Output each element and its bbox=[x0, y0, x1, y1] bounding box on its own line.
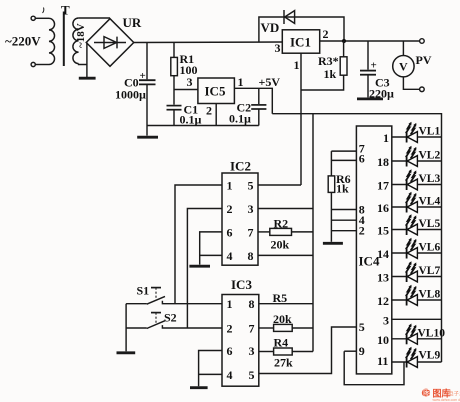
capacitor C3 bbox=[367, 41, 369, 70]
LED rows bbox=[392, 137, 442, 362]
ground (IC3) bbox=[190, 386, 208, 389]
svg-text:4: 4 bbox=[227, 249, 233, 263]
resistor R1 bbox=[173, 42, 175, 57]
svg-text:~220V: ~220V bbox=[5, 34, 41, 49]
svg-text:6: 6 bbox=[227, 344, 233, 358]
watermark logo bbox=[422, 388, 460, 402]
svg-text:VL1: VL1 bbox=[419, 126, 441, 138]
svg-text:27k: 27k bbox=[274, 356, 293, 370]
svg-text:20k: 20k bbox=[271, 238, 290, 252]
wire IC1 pin2 output rail bbox=[320, 40, 420, 42]
svg-text:7: 7 bbox=[249, 322, 255, 336]
svg-text:PV: PV bbox=[416, 53, 432, 67]
svg-text:3: 3 bbox=[187, 75, 193, 89]
IC3 box bbox=[222, 295, 259, 387]
svg-text:VL6: VL6 bbox=[419, 242, 441, 254]
svg-text:图: 图 bbox=[423, 389, 431, 398]
IC1 box bbox=[282, 30, 319, 53]
svg-text:IC3: IC3 bbox=[231, 277, 252, 292]
svg-text:3: 3 bbox=[275, 41, 281, 55]
svg-text:VL7: VL7 bbox=[419, 265, 441, 277]
ground (switches) bbox=[117, 351, 136, 354]
svg-text:电子发烧网: 电子发烧网 bbox=[448, 390, 460, 398]
wire secondary bottom bbox=[79, 63, 87, 66]
svg-text:2: 2 bbox=[323, 27, 329, 41]
svg-text:1000µ: 1000µ bbox=[115, 88, 146, 102]
output terminal top bbox=[420, 39, 425, 44]
+5V rail to LED bus bbox=[272, 114, 441, 362]
svg-text:2: 2 bbox=[227, 202, 233, 216]
wire IC4 pin8 bbox=[331, 209, 356, 211]
wire switches to ground bbox=[125, 304, 127, 352]
ground (C0) bbox=[137, 136, 158, 139]
transformer primary winding bbox=[49, 18, 55, 64]
transformer core bbox=[63, 12, 65, 67]
svg-text:www.dzfsw.com dianzifashaowang: www.dzfsw.com dianzifashaowang bbox=[433, 398, 460, 402]
svg-text:6: 6 bbox=[227, 225, 233, 239]
svg-text:4: 4 bbox=[227, 368, 233, 382]
wire R1/C1 to IC5 pin3 bbox=[174, 89, 198, 91]
wire terminal top to primary bbox=[35, 17, 49, 19]
capacitor C0 bbox=[146, 42, 148, 79]
svg-text:VL5: VL5 bbox=[419, 218, 441, 230]
wire terminal bottom to primary bbox=[35, 64, 49, 66]
svg-text:13: 13 bbox=[377, 271, 389, 285]
wire bridge left corner to ground bbox=[86, 43, 88, 78]
capacitor C2 bbox=[258, 88, 260, 104]
wire IC3 pin5 to IC4 pin5 bbox=[259, 327, 357, 374]
svg-text:8: 8 bbox=[248, 249, 254, 263]
LED VL10 bbox=[392, 338, 442, 340]
IC5 pin2 stem bbox=[215, 104, 217, 126]
wire secondary top to bridge top bbox=[79, 17, 110, 19]
wire C0 to ground bbox=[146, 126, 148, 136]
svg-text:10: 10 bbox=[377, 333, 389, 347]
svg-text:2: 2 bbox=[359, 224, 365, 238]
svg-text:VL2: VL2 bbox=[419, 150, 441, 162]
R6 pullup network verticals bbox=[331, 151, 356, 176]
svg-text:1: 1 bbox=[227, 179, 233, 193]
ground (R6) bbox=[323, 242, 343, 245]
svg-text:7: 7 bbox=[248, 225, 254, 239]
LED VL3 bbox=[392, 184, 442, 186]
svg-text:6: 6 bbox=[359, 152, 365, 166]
resistor R6 bbox=[328, 176, 335, 193]
wire IC2 pin6 pin4 to ground bbox=[200, 232, 222, 265]
LED VL9 bbox=[392, 361, 442, 363]
wire IC3 pin6 pin4 to ground bbox=[199, 351, 222, 387]
svg-text:11: 11 bbox=[377, 354, 388, 368]
LED VL5 bbox=[392, 229, 442, 231]
LED VL8 bbox=[392, 299, 442, 301]
switch S1 bbox=[126, 303, 147, 305]
vertical +5V pullup bus bbox=[312, 114, 314, 352]
svg-text:S2: S2 bbox=[164, 311, 177, 325]
wire IC4 pin9 bbox=[344, 350, 356, 352]
IC4 box bbox=[356, 126, 391, 374]
IC2 box bbox=[222, 173, 258, 265]
switch S2 bbox=[126, 327, 147, 329]
svg-text:2: 2 bbox=[206, 104, 212, 118]
resistor R5 (20k) in pin7 row bbox=[259, 327, 274, 329]
wire IC2 pin5 bbox=[258, 184, 301, 186]
output terminal bottom bbox=[420, 87, 425, 92]
svg-text:1: 1 bbox=[227, 297, 233, 311]
wire IC2 pin3 bbox=[258, 208, 313, 210]
wire IC4 pin3 row bbox=[392, 318, 442, 320]
svg-text:T: T bbox=[61, 3, 70, 18]
svg-text:VL8: VL8 bbox=[419, 289, 441, 301]
svg-text:IC2: IC2 bbox=[230, 159, 251, 174]
ground (C3) bbox=[357, 98, 383, 101]
svg-text:VL10: VL10 bbox=[418, 327, 446, 339]
svg-text:V: V bbox=[399, 60, 408, 74]
svg-text:3: 3 bbox=[383, 313, 389, 327]
wire main rail bridge to IC1 bbox=[134, 41, 283, 44]
svg-text:+: + bbox=[140, 70, 146, 82]
svg-text:220µ: 220µ bbox=[369, 87, 394, 101]
LED VL1 bbox=[392, 136, 442, 138]
svg-text:+5V: +5V bbox=[259, 75, 281, 89]
diode VD bbox=[284, 10, 295, 24]
svg-text:+: + bbox=[371, 60, 377, 72]
svg-text:R4: R4 bbox=[274, 336, 289, 350]
wire IC4 pin9 to pin11 net bbox=[344, 351, 404, 385]
svg-text:18: 18 bbox=[377, 155, 389, 169]
svg-text:2: 2 bbox=[227, 322, 233, 336]
ground (bridge) bbox=[79, 77, 96, 80]
svg-text:R3*: R3* bbox=[318, 54, 339, 68]
PSU bottom rail bbox=[147, 125, 259, 127]
resistor R4 (27k) in pin3 row bbox=[259, 351, 274, 353]
svg-text:12: 12 bbox=[377, 294, 389, 308]
wire IC3 pin8 / R5 bbox=[259, 303, 313, 305]
svg-text:5: 5 bbox=[359, 320, 365, 334]
svg-text:0.1µ: 0.1µ bbox=[180, 113, 202, 127]
bridge rectifier UR diamond bbox=[86, 19, 134, 67]
svg-text:VL3: VL3 bbox=[419, 173, 441, 185]
svg-text:VL4: VL4 bbox=[419, 196, 441, 208]
svg-text:0.1µ: 0.1µ bbox=[229, 112, 251, 126]
transformer secondary winding bbox=[73, 18, 79, 64]
LED VL2 bbox=[392, 160, 442, 162]
wire IC5 pin1 +5V bbox=[234, 88, 272, 113]
svg-text:R2: R2 bbox=[274, 217, 289, 231]
IC5 box bbox=[198, 78, 235, 104]
transformer T primary terminal bottom bbox=[31, 62, 35, 66]
svg-text:3: 3 bbox=[249, 344, 255, 358]
bridge diode bbox=[94, 37, 126, 49]
scan squiggle artifact bbox=[43, 8, 44, 14]
wire IC1 pin1 bbox=[301, 53, 344, 90]
svg-text:VL9: VL9 bbox=[419, 350, 441, 362]
svg-text:1k: 1k bbox=[324, 67, 337, 81]
wire IC4 pin4 bbox=[331, 219, 356, 221]
svg-text:1: 1 bbox=[383, 131, 389, 145]
wire IC2 pin2 bbox=[187, 209, 222, 329]
svg-text:UR: UR bbox=[123, 15, 142, 30]
svg-text:14: 14 bbox=[377, 247, 389, 261]
svg-text:5: 5 bbox=[248, 179, 254, 193]
transformer T primary terminal top bbox=[31, 16, 35, 20]
wire IC2 pin1 bbox=[175, 185, 222, 304]
LED VL7 bbox=[392, 276, 442, 278]
svg-text:9: 9 bbox=[359, 344, 365, 358]
svg-text:20k: 20k bbox=[273, 312, 292, 326]
svg-text:S1: S1 bbox=[137, 284, 150, 298]
svg-text:R5: R5 bbox=[273, 291, 288, 305]
node junction dot bbox=[342, 39, 346, 43]
capacitor C1 bbox=[173, 90, 175, 105]
svg-text:IC1: IC1 bbox=[290, 35, 311, 50]
wire IC1 pin1 down to IC2 pin5 bbox=[300, 90, 302, 185]
wire VD branch bbox=[259, 17, 344, 42]
svg-text:8: 8 bbox=[249, 297, 255, 311]
resistor R3 bbox=[343, 41, 345, 57]
svg-text:~18V: ~18V bbox=[75, 23, 87, 48]
ground (IC2) bbox=[189, 265, 210, 268]
svg-text:1: 1 bbox=[294, 58, 300, 72]
svg-text:VD: VD bbox=[261, 20, 280, 35]
svg-text:5: 5 bbox=[249, 368, 255, 382]
LED VL4 bbox=[392, 206, 442, 208]
svg-text:16: 16 bbox=[377, 201, 389, 215]
resistor R2 bbox=[258, 231, 270, 233]
svg-text:17: 17 bbox=[377, 179, 389, 193]
svg-text:IC5: IC5 bbox=[205, 84, 226, 99]
svg-text:1k: 1k bbox=[336, 182, 349, 196]
wire IC4 pin2 bbox=[331, 230, 356, 232]
wire IC2 pin8 bbox=[258, 254, 313, 256]
LED VL6 bbox=[392, 252, 442, 254]
svg-text:3: 3 bbox=[248, 202, 254, 216]
svg-text:15: 15 bbox=[377, 224, 389, 238]
svg-text:1: 1 bbox=[238, 75, 244, 89]
voltmeter PV bbox=[393, 55, 414, 76]
